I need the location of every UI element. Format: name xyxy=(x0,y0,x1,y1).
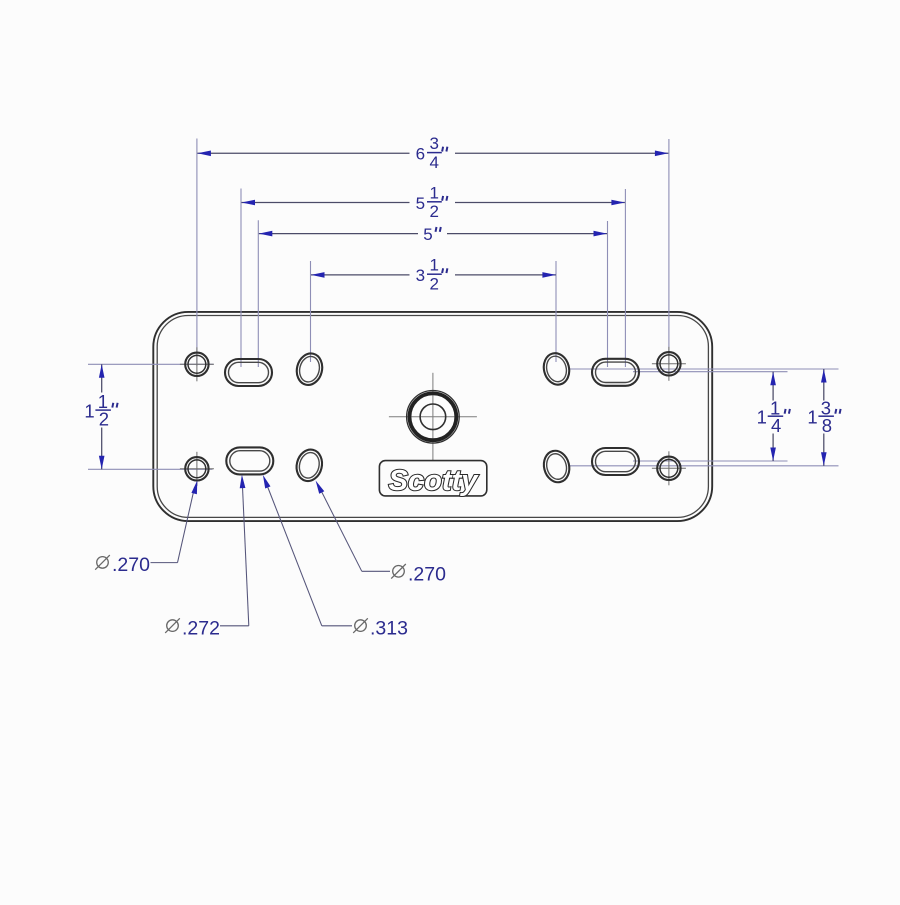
svg-text:6: 6 xyxy=(416,145,425,164)
svg-text:1: 1 xyxy=(429,256,438,275)
svg-text:2: 2 xyxy=(429,202,438,221)
svg-text:.270: .270 xyxy=(408,563,446,585)
svg-text:1: 1 xyxy=(84,401,94,422)
svg-text:4: 4 xyxy=(771,415,781,436)
svg-text:2: 2 xyxy=(99,409,109,430)
svg-text:Scotty: Scotty xyxy=(389,465,480,497)
svg-text:1: 1 xyxy=(757,406,767,427)
svg-text:4: 4 xyxy=(429,153,438,172)
svg-text:2: 2 xyxy=(429,275,438,294)
svg-text:3: 3 xyxy=(429,134,438,153)
svg-text:3: 3 xyxy=(416,266,425,285)
svg-text:5: 5 xyxy=(416,194,425,213)
svg-text:5: 5 xyxy=(423,225,432,244)
svg-text:.270: .270 xyxy=(112,554,150,576)
svg-text:1: 1 xyxy=(429,183,438,202)
svg-text:8: 8 xyxy=(822,415,832,436)
svg-text:.272: .272 xyxy=(182,618,220,640)
svg-text:.313: .313 xyxy=(370,618,408,640)
svg-text:1: 1 xyxy=(807,406,817,427)
